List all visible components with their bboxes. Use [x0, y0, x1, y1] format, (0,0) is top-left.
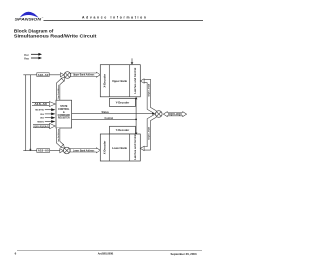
label A18-A0 (bottom bus) [37, 149, 50, 153]
wire: Status line [72, 112, 153, 114]
svg-text:OE#: OE# [40, 118, 44, 120]
block: lower Y-Decoder [110, 126, 136, 134]
header rule [44, 20, 204, 22]
block: upper bank (X-Decoder | Upper Bank | Latches and Control) [100, 65, 140, 97]
svg-text:COMMAND: COMMAND [58, 114, 71, 117]
bus: DQ15-DQ0 bidirectional output [163, 112, 186, 117]
svg-text:6: 6 [15, 252, 17, 256]
svg-text:CONTROL: CONTROL [58, 109, 70, 111]
node: junction on lower bus [30, 149, 32, 151]
svg-text:CE#: CE# [40, 114, 44, 116]
svg-text:REGISTER: REGISTER [58, 118, 70, 120]
bus: upper bank addresses (from state control up to mux) [58, 80, 63, 101]
svg-text:X-Decoder: X-Decoder [104, 74, 107, 88]
block: upper Y-Decoder [110, 98, 136, 106]
svg-text:DQ15–DQ0: DQ15–DQ0 [149, 126, 151, 140]
svg-text:™: ™ [42, 18, 44, 20]
block: state control & command register U2 [56, 100, 72, 128]
svg-text:Lower Bank Addresses: Lower Bank Addresses [57, 128, 60, 142]
svg-text:Latches and Control: Latches and Control [134, 67, 137, 93]
bus: upper DQ15-DQ0 bent bus [144, 81, 156, 112]
svg-text:Upper Bank Addresses: Upper Bank Addresses [57, 84, 60, 99]
block: lower bank (X-Decoder | Lower Bank | Latches and Control) [100, 134, 140, 161]
svg-text:Upper Bank: Upper Bank [112, 79, 127, 83]
svg-text:DQ15–DQ0: DQ15–DQ0 [149, 83, 151, 97]
wire: A18-A0 bottom bus line [23, 150, 60, 152]
svg-text:A18–A0: A18–A0 [34, 103, 47, 106]
svg-text:Lower Bank: Lower Bank [112, 146, 127, 150]
wire: stub arrow into top of latches strip [131, 58, 133, 63]
wire: A18-A0 top bus line [23, 74, 61, 76]
svg-text:SPANSION: SPANSION [15, 16, 42, 21]
svg-text:A18–A0: A18–A0 [38, 150, 50, 153]
svg-text:X-Decoder: X-Decoder [104, 141, 107, 155]
footer rule [17, 250, 202, 252]
bus: lower bank addresses (from state control down to mux) [58, 128, 62, 146]
svg-text:September 26, 2003: September 26, 2003 [171, 252, 198, 256]
bus: A18-A0 into state control [32, 102, 49, 104]
wire: open arrowhead into upper mux [60, 73, 64, 77]
svg-text:WE# BYTE#: WE# BYTE# [35, 110, 44, 112]
svg-text:RESET#: RESET# [37, 121, 44, 123]
bus: lower DQ15-DQ0 bent bus [144, 116, 156, 149]
svg-text:Y-Decoder: Y-Decoder [116, 101, 130, 105]
wire: Control line [72, 118, 137, 120]
node: control junction [135, 119, 137, 121]
bus: DQ15-DQ0 (A-1) into state control [33, 123, 50, 125]
svg-text:DQ15–DQ0 (A-1): DQ15–DQ0 (A-1) [33, 125, 49, 128]
mux: lower bank address multiplexer [64, 147, 71, 154]
svg-text:Status: Status [102, 111, 110, 114]
wire: control vertical branch [135, 98, 137, 133]
bus: Lower Bank Address [70, 148, 100, 153]
wire: left inner vertical rail [29, 75, 31, 151]
svg-text:VSS: VSS [24, 57, 29, 61]
svg-text:Latches and Control: Latches and Control [134, 134, 137, 160]
bus: Upper Bank Address [71, 72, 100, 77]
Spansion logo [15, 12, 44, 22]
svg-text:Lower Bank Address: Lower Bank Address [73, 149, 95, 152]
svg-text:A18–A0: A18–A0 [38, 74, 50, 77]
wire: left outer vertical rail [25, 75, 27, 151]
svg-text:Control: Control [105, 117, 114, 120]
svg-text:STATE: STATE [60, 105, 68, 108]
svg-text:Upper Bank Address: Upper Bank Address [73, 74, 95, 77]
mux: DQ output multiplexer [156, 111, 163, 118]
svg-text:Advance Information: Advance Information [82, 15, 146, 19]
svg-text:Simultaneous Read/Write Circui: Simultaneous Read/Write Circuit [14, 33, 97, 38]
label A18-A0 (top bus) [37, 73, 49, 77]
svg-text:DQ15–DQ0: DQ15–DQ0 [168, 114, 182, 116]
svg-text:Y-Decoder: Y-Decoder [116, 128, 130, 132]
svg-text:Am29DL800B: Am29DL800B [98, 252, 114, 256]
mux: upper bank address multiplexer [64, 72, 71, 79]
